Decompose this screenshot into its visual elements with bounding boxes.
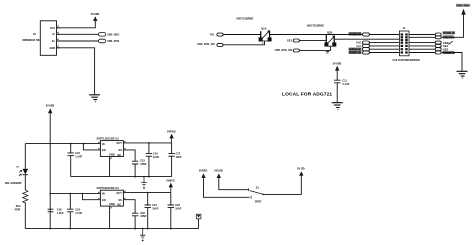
svg-text:10UF: 10UF [175,207,182,211]
no-connect tick row4 [449,41,453,44]
junction rail C18 [49,228,51,230]
svg-text:GE1: GE1 [287,38,293,42]
svg-text:C18 CUSTOM RIBBON: C18 CUSTOM RIBBON [392,58,419,62]
off-page oval USB_POS [99,39,106,43]
connector J1 body [399,31,409,56]
capacitor C15 [132,161,138,176]
svg-text:470R: 470R [14,207,20,211]
power arrow 5VNEG_ABN [461,9,465,15]
svg-text:5VNEG_IN: 5VNEG_IN [349,51,361,55]
off-page oval YEL [217,33,223,36]
junction C12 top [70,143,72,145]
junction jog stage2 [82,193,84,195]
wire U3 OUT [123,192,170,194]
wire row1 oval to J1 [369,34,400,36]
junction rail C22 [170,228,172,230]
power arrow 5VUSB (rail feed) [48,108,52,113]
capacitor C17 [168,143,174,177]
junction rail C20 [134,228,136,230]
wire GND pin to ground [57,48,95,95]
net label row1 right [443,31,455,35]
capacitor C16 [146,143,152,177]
svg-text:D-: D- [53,32,56,36]
svg-text:5VUSB_IN: 5VUSB_IN [349,32,361,36]
wire J1 to row2 oval right [409,36,435,38]
wire test point to rail [198,219,200,229]
transistor Q1B [324,35,336,47]
wire 5VNEG to switch lower [204,178,250,198]
off-page oval row2 right [435,36,441,39]
svg-text:Q1B: Q1B [327,31,332,35]
off-page oval USB_POS_ON left [217,43,223,46]
wire left branch top [25,143,50,145]
svg-text:10UF: 10UF [152,207,159,211]
capacitor C20 [132,213,138,228]
power arrow 5VUSB sel [217,173,221,178]
J1 pin squares column A [401,33,404,53]
J2 pin 4 stub [57,47,61,49]
svg-text:VCC: VCC [50,26,56,30]
svg-text:USB_NEG: USB_NEG [107,32,119,36]
svg-text:SS: SS [118,198,122,202]
U2 pin ticks [98,141,125,159]
wire stage1 input [50,143,100,145]
wire D- pin to oval [57,33,99,35]
svg-text:C17: C17 [176,152,181,156]
wire stage2 input [50,193,100,195]
wire oval GE1 to Q1B [300,39,327,41]
off-page oval row6 left [363,48,370,51]
wire oval to Q1B gate [300,47,331,51]
junction gnd stage1 [143,176,145,178]
power arrow 5VDD out [299,171,303,176]
capacitor C22 [168,193,174,229]
svg-text:USB_POS_ON: USB_POS_ON [197,42,215,46]
J2 pin 1 stub [57,27,61,29]
svg-text:IN: IN [102,191,105,195]
off-page oval row7 left [363,51,370,54]
svg-text:EN: EN [102,148,106,152]
svg-text:C21: C21 [152,203,157,207]
wire U2 OUT [123,142,171,144]
svg-text:10UF: 10UF [176,155,183,159]
off-page oval row5 right [435,44,441,47]
wire J1 to row1 oval right [409,34,435,36]
wire row4 oval to J1 [369,42,400,44]
wire LED branch upper [24,144,26,170]
wire row7 oval to J1 [369,52,400,54]
J2 pin 2 stub [57,33,61,35]
off-page oval row7 right [435,51,441,54]
off-page oval GE1 [293,39,299,42]
power label 5VNEG_ABN [456,4,470,8]
capacitor C19 [67,194,73,229]
wire LED to resistor [24,175,26,190]
wire Q1A out long (row1) [270,34,363,36]
net label row2 right [443,35,455,39]
capacitor C11 [334,80,340,102]
off-page oval row5 left [363,44,370,47]
svg-text:Q1A: Q1A [261,27,266,31]
wire J1 to row4 oval right [409,42,435,44]
off-page oval row4 left [363,41,370,44]
svg-text:USB_POS_ON: USB_POS_ON [275,48,293,52]
power arrow 5VUSB local [335,66,339,71]
wire VCC pin to 5VUSB arrow [57,21,96,28]
svg-text:C16: C16 [153,152,158,156]
J1 pin squares column B [405,33,408,53]
wire J1 to row5 oval right [409,45,435,47]
wire row5 oval to J1 [369,45,400,47]
regulator U3 body [100,190,123,206]
power arrow 5VNEG [169,183,173,193]
svg-text:1.0UF: 1.0UF [57,211,64,215]
J2 pin 3 stub [57,40,61,42]
ground local [332,103,343,110]
wire U2 SS to C15 [123,150,135,161]
stage1 ground rail [71,176,172,178]
svg-text:0.1UF: 0.1UF [342,82,349,86]
power arrow 5VPOS [169,134,173,143]
power arrow 5VUSB (top-left USB) [93,16,97,21]
ground (USB) [89,95,100,102]
power arrow 5VNEG sel [201,173,205,178]
svg-text:GND: GND [109,202,115,206]
wire row6 oval to J1 [369,48,400,50]
junction rail gnd2 [142,228,144,230]
wire J1 to row6 oval right [409,48,435,50]
off-page oval row4 right [435,41,441,44]
jog to EN pin stage2 [83,194,101,200]
junction rail/stage1 input [49,143,51,145]
ground top-right [457,71,468,78]
ground stage1 [141,177,146,189]
connector J2 body [40,21,56,56]
svg-text:1.0UF: 1.0UF [75,211,82,215]
off-page oval USB_POS_ON right [293,49,299,52]
junction rail/stage2 input [49,193,51,195]
svg-text:SPDT: SPDT [255,199,262,203]
svg-text:1.0UF: 1.0UF [75,155,82,159]
svg-text:C12: C12 [75,151,80,155]
wire 5VUSB rail vertical [49,114,51,229]
transistor Q1A [259,30,272,43]
svg-text:5VB2_ABN: 5VB2_ABN [456,4,469,8]
svg-text:5VUSB: 5VUSB [214,169,223,173]
U2 GND pin wire [109,157,111,177]
bottom rail [25,228,198,230]
wire Q1B out (row3) [334,38,399,40]
svg-text:5VUSB: 5VUSB [46,104,55,108]
svg-text:C22: C22 [175,203,180,207]
junction C21 top [147,192,149,194]
svg-text:NC: NC [118,202,122,206]
net label row7 right [443,51,455,55]
svg-text:YEL: YEL [210,32,215,36]
svg-text:IN: IN [102,142,105,146]
junction C19 top [69,193,71,195]
svg-text:GND: GND [109,152,115,156]
wire oval to Q1A gate [223,41,264,45]
wire row7 to ground [442,53,462,72]
svg-text:5VUSB: 5VUSB [91,12,100,16]
LED D1 [19,169,28,176]
svg-text:C18: C18 [57,207,62,211]
svg-text:LOCAL FOR ADG721: LOCAL FOR ADG721 [282,92,332,98]
wire resistor to bottom rail [24,203,26,229]
svg-text:MCL GRN4ABD: MCL GRN4ABD [5,182,22,185]
svg-text:NC: NC [118,153,122,157]
ground stage2 [140,229,145,241]
net label 5VNEG row7 [349,51,362,55]
wire row2 to power arrow [442,15,464,38]
switch S1 [249,188,264,199]
capacitor C18 (on rail) [48,209,54,212]
wire D+ pin to oval [57,40,99,42]
svg-text:EN: EN [102,198,106,202]
wire J1 to row7 oval right [409,52,435,54]
svg-text:5VNEG: 5VNEG [199,169,208,173]
off-page oval USB_NEG [99,33,106,37]
svg-text:10NF: 10NF [140,162,147,166]
Q1B source mark [326,52,329,53]
wire U3 SS to C20 [123,200,135,214]
svg-text:5VUSB_IN: 5VUSB_IN [443,31,455,35]
svg-text:ADP7112ACBZ-2.5: ADP7112ACBZ-2.5 [96,136,119,140]
junction rail C21 [147,228,149,230]
svg-text:C15: C15 [140,158,145,162]
svg-text:10UF: 10UF [153,155,160,159]
svg-text:C20: C20 [140,211,145,215]
junction C16 bottom [148,176,150,178]
junction C16 top [148,142,150,144]
jog to EN pin stage1 [83,144,100,150]
svg-text:D+: D+ [52,39,56,43]
off-page oval row1 right [435,33,441,36]
svg-text:USB_POS: USB_POS [107,39,119,43]
junction C15 bottom [134,176,136,178]
regulator U2 body [100,141,123,157]
svg-text:5V DD: 5V DD [297,167,305,171]
junction jog stage1 [83,143,85,145]
capacitor C21 [145,193,151,229]
svg-text:OUT: OUT [116,191,122,195]
wire arrow to C11 [336,70,338,80]
U3 pin ticks [98,191,125,209]
svg-text:GND: GND [50,46,56,50]
svg-text:SS: SS [118,148,122,152]
U3 GND pin wire [109,206,111,229]
svg-text:USBMINI-B 5W: USBMINI-B 5W [22,38,41,42]
test point TP1 [196,214,201,219]
svg-text:5VPOS: 5VPOS [167,129,176,133]
svg-text:10NF: 10NF [140,214,147,218]
wire 5VUSB to switch upper [219,178,249,190]
wire oval YEL to Q1A [223,34,260,36]
svg-text:5VNEG: 5VNEG [166,179,175,183]
capacitor C12 [68,144,74,177]
svg-text:5VUSB: 5VUSB [333,61,342,65]
svg-text:ADG721BRMZ: ADG721BRMZ [236,17,254,21]
resistor R14 [23,190,28,203]
svg-text:OUT: OUT [116,141,122,145]
svg-text:ADP7182ACBZ-2.5: ADP7182ACBZ-2.5 [96,186,119,190]
wire switch common to arrow [264,175,301,194]
off-page oval row1 left [363,33,370,36]
junction rail C19 [69,228,71,230]
svg-text:C11: C11 [342,78,347,82]
svg-text:ADG721BRMZ: ADG721BRMZ [307,24,325,28]
net label 5VPOS row6 [349,47,362,51]
off-page oval row6 right [435,48,441,51]
net label box 5VUSB row1 [349,32,362,36]
svg-text:C19: C19 [75,207,80,211]
